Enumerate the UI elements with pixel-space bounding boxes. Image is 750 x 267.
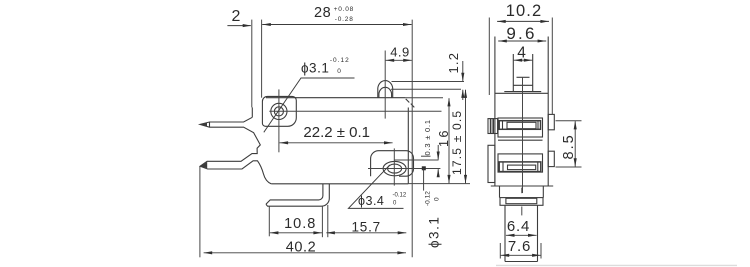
slot2 terminal end bars — [503, 162, 538, 172]
hole H1 outer — [271, 103, 287, 119]
svg-text:1.2: 1.2 — [446, 52, 461, 74]
center line hole H2 vertical — [393, 148, 395, 185]
upper prong weld bar — [209, 122, 211, 127]
dim 4.9 line — [386, 59, 412, 61]
plunger side left — [512, 54, 514, 91]
body left edge — [251, 107, 253, 117]
body left edge — [494, 37, 496, 187]
center line hole H1 horizontal — [269, 110, 441, 112]
dim 10.8 line — [270, 232, 322, 234]
bottom lug L-shape — [266, 184, 329, 206]
line y160 — [395, 159, 439, 161]
svg-text:ϕ3.4: ϕ3.4 — [358, 194, 384, 208]
svg-text:0: 0 — [337, 68, 341, 75]
svg-text:8.5: 8.5 — [561, 133, 577, 159]
neck — [500, 186, 544, 198]
dim 4 line — [514, 59, 533, 61]
slot2 box — [498, 154, 543, 172]
ext 10.2 right — [551, 18, 553, 115]
lever tip chamfer — [406, 99, 415, 108]
svg-text:40.2: 40.2 — [286, 239, 317, 255]
svg-text:10.8: 10.8 — [284, 216, 316, 232]
dim 2 arrow — [227, 25, 250, 27]
hole H2 outer oval — [383, 161, 406, 175]
dim 17.5 line — [465, 90, 467, 184]
dim 6.4 line — [506, 234, 537, 236]
center tick neck — [521, 188, 523, 194]
center line hole H2 horizontal — [368, 168, 440, 170]
slot2 terminal inner — [508, 165, 536, 170]
node dot — [422, 166, 426, 170]
ext line 1.2 top — [392, 81, 465, 83]
ext line bottom right — [408, 183, 470, 185]
plunger rung mid — [513, 84, 532, 86]
slot1 left clip — [488, 119, 498, 134]
collar inner — [506, 198, 537, 203]
slot2 left flange — [488, 145, 495, 182]
body right edge — [547, 37, 549, 187]
ext 7.6 right — [540, 243, 542, 259]
slot1 shelf — [498, 139, 543, 141]
svg-text:17.5 ± 0.5: 17.5 ± 0.5 — [450, 110, 464, 175]
svg-text:-0.28: -0.28 — [335, 16, 354, 23]
DIMENSIONS LEFT VIEW — [204, 23, 467, 254]
svg-text:-0.12: -0.12 — [425, 191, 432, 206]
ext line 2mm left — [251, 20, 253, 108]
svg-text:28: 28 — [314, 5, 331, 21]
slot1 terminal end bars — [503, 121, 539, 130]
boss U1 top-left — [262, 96, 296, 126]
svg-text:6.4: 6.4 — [507, 218, 530, 235]
ext line 17.5 top — [391, 88, 461, 90]
svg-text:-0.12: -0.12 — [393, 193, 407, 199]
lever top line — [266, 97, 406, 99]
hole H1 inner — [274, 107, 283, 116]
ext 8.5 top — [556, 120, 582, 122]
dim 10.2 line — [497, 20, 549, 22]
upper prong — [200, 117, 271, 184]
roller bump outer — [378, 81, 393, 98]
slot1 box — [498, 118, 543, 137]
ext line 10.8 left — [268, 207, 270, 237]
dim 0.3 up arrow — [437, 169, 439, 176]
svg-text:22.2 ± 0.1: 22.2 ± 0.1 — [303, 124, 370, 141]
svg-text:7.6: 7.6 — [508, 238, 531, 255]
leader phi3.1 bottom vertical — [423, 169, 425, 191]
leader phi3.1 top — [264, 78, 355, 132]
dim 28 line — [262, 24, 411, 26]
ext 10.2 left — [488, 18, 490, 96]
dim 7.6 line — [501, 254, 541, 256]
svg-text:-0.12: -0.12 — [330, 57, 350, 64]
dim 22.2 line — [280, 142, 393, 144]
ext line 40.2 left — [199, 166, 201, 257]
ext 7.6 left — [499, 243, 501, 259]
dim 1.2 down arrow — [462, 61, 464, 81]
plunger bottom — [505, 261, 538, 263]
tab1 right — [548, 114, 554, 129]
svg-text:ϕ3.1: ϕ3.1 — [301, 61, 329, 76]
roller bump inner arc — [379, 87, 392, 97]
dim 15.7 line — [326, 232, 406, 234]
collar — [500, 198, 543, 206]
plunger rung small — [517, 76, 530, 78]
dim 9.6 line — [498, 40, 546, 42]
body bottom edge — [271, 183, 408, 185]
lower prong tip fill — [200, 162, 207, 168]
center line hole H1 vertical — [278, 89, 280, 152]
svg-text:0.3 ± 0.1: 0.3 ± 0.1 — [423, 119, 432, 155]
leader phi3.4 — [348, 165, 403, 209]
tab2 right — [548, 151, 554, 166]
upper prong tip fill — [200, 123, 207, 127]
svg-text:15.7: 15.7 — [351, 220, 380, 235]
dim 40.2 line — [204, 252, 406, 254]
svg-text:10.2: 10.2 — [506, 2, 543, 20]
hole H2 inner oval — [388, 164, 402, 173]
slot1 terminal inner — [507, 122, 536, 128]
ext 8.5 bottom — [556, 166, 582, 168]
slot1 terminal — [499, 121, 540, 130]
dim 0.3 down arrow — [437, 145, 439, 160]
svg-text:ϕ3.1: ϕ3.1 — [427, 216, 442, 248]
ext line 10.8 right — [321, 206, 323, 237]
center line front vertical — [522, 77, 524, 193]
svg-text:4.9: 4.9 — [390, 45, 410, 60]
ext line 16 top — [406, 97, 443, 99]
slot2 terminal — [499, 162, 541, 172]
dim 1.2 up arrow — [462, 90, 464, 100]
FRONT VIEW — [488, 37, 554, 262]
svg-text:9.6: 9.6 — [506, 24, 536, 43]
dim 8.5 line — [574, 121, 576, 166]
boss B2 bottom-right — [371, 151, 414, 177]
body right edge — [407, 108, 409, 184]
plunger shelf — [504, 91, 541, 93]
center line bump vertical — [384, 51, 386, 119]
svg-text:0: 0 — [434, 197, 441, 201]
dim 16 line — [448, 98, 450, 183]
slot1 clip inner lines — [491, 119, 494, 134]
svg-text:2: 2 — [232, 8, 241, 25]
ext line right shared — [411, 20, 413, 258]
bottom plate line — [491, 185, 553, 187]
ext line 28 left — [261, 20, 263, 98]
svg-text:16: 16 — [437, 128, 451, 147]
faint bottom artifact line — [496, 264, 737, 266]
ext line 15.7 left — [327, 205, 329, 237]
body top inner line — [495, 92, 548, 94]
svg-text:4: 4 — [517, 45, 526, 62]
svg-text:0: 0 — [393, 201, 397, 207]
svg-text:+0.08: +0.08 — [334, 6, 354, 13]
center tick plunger — [521, 207, 523, 216]
line y156 — [421, 155, 431, 157]
plunger lower sides — [505, 205, 538, 261]
plunger side right — [532, 54, 534, 91]
